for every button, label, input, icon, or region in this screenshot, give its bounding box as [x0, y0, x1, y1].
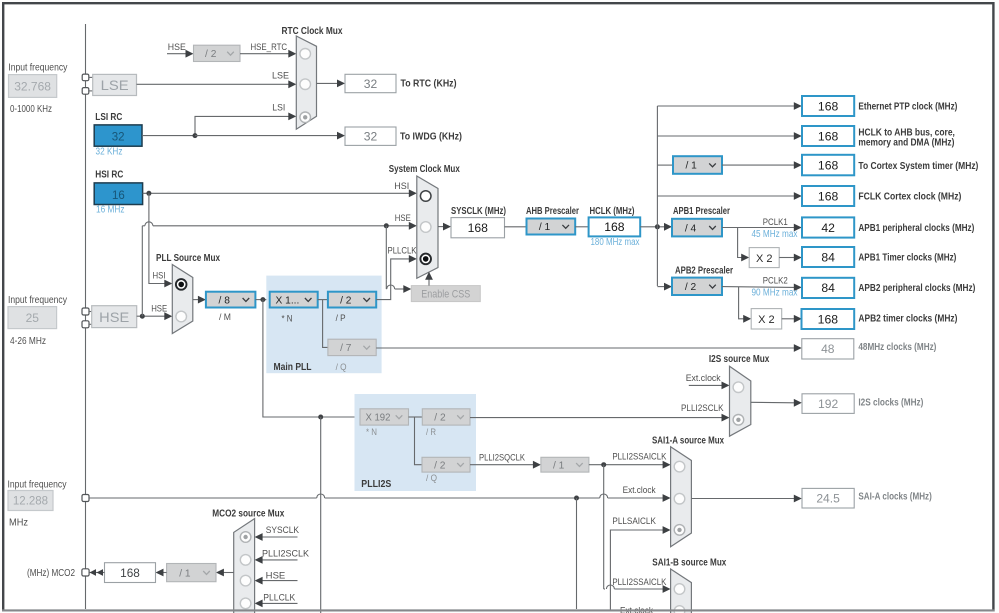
svg-text:Input frequency: Input frequency	[8, 63, 67, 74]
hop CSS wire over PLLCLK riser	[387, 285, 395, 289]
svg-text:I2S source Mux: I2S source Mux	[709, 354, 770, 365]
svg-text:16: 16	[112, 190, 125, 202]
svg-text:* N: * N	[282, 313, 293, 324]
svg-text:Ethernet PTP clock (MHz): Ethernet PTP clock (MHz)	[858, 102, 957, 113]
svg-text:Ext.clock: Ext.clock	[620, 606, 653, 613]
panel Main PLL	[266, 276, 381, 374]
svg-text:4-26 MHz: 4-26 MHz	[10, 336, 46, 347]
wire N to Q divider	[323, 300, 328, 348]
svg-text:/ 2: / 2	[434, 413, 446, 424]
wire HSE stubs	[89, 311, 92, 313]
wire AHB bus vertical	[656, 106, 658, 286]
svg-text:To RTC (KHz): To RTC (KHz)	[401, 79, 457, 90]
input box 25	[8, 307, 57, 329]
svg-text:FCLK Cortex clock (MHz): FCLK Cortex clock (MHz)	[858, 192, 961, 203]
input box 12.288	[8, 491, 53, 511]
svg-text:Ext.clock: Ext.clock	[623, 485, 656, 496]
wire MCO2 riser	[320, 417, 322, 613]
mux SAI1-B source Mux	[671, 569, 692, 613]
junction SAI feed	[601, 462, 606, 467]
svg-text:PLLCLK: PLLCLK	[263, 593, 296, 604]
port HSE pin1	[82, 308, 89, 315]
svg-text:168: 168	[468, 221, 489, 235]
mux PLL Source Mux	[172, 265, 193, 334]
mux MCO2 source Mux	[234, 519, 255, 613]
wire APB1 to X2	[738, 228, 742, 258]
svg-text:I2S clocks (MHz): I2S clocks (MHz)	[858, 398, 923, 409]
svg-text:PLLI2SSAICLK: PLLI2SSAICLK	[612, 452, 667, 463]
value FCLK 168	[802, 186, 854, 206]
svg-text:HSI: HSI	[394, 181, 409, 192]
svg-text:To IWDG (KHz): To IWDG (KHz)	[400, 132, 462, 143]
svg-text:PLLI2SQCLK: PLLI2SQCLK	[479, 452, 526, 463]
svg-text:HSE: HSE	[168, 42, 186, 53]
wire HSI down to PLL mux	[149, 193, 165, 283]
divider APB1 /4	[672, 219, 722, 237]
svg-text:/ R: / R	[426, 427, 436, 438]
port I2S CKIN pin	[82, 495, 89, 502]
wire MCO2 value to pin	[89, 572, 104, 574]
svg-text:X 1...: X 1...	[276, 295, 300, 306]
divider AHB /1	[527, 219, 576, 235]
wire LSE to mux	[137, 83, 290, 85]
wire bus to APB2	[657, 286, 665, 288]
junction LSI	[193, 133, 198, 138]
svg-text:/ 1: / 1	[179, 568, 191, 579]
svg-text:32.768: 32.768	[14, 80, 51, 94]
wire HSE to MCO2	[262, 580, 298, 582]
wire APB1 to PCLK1	[722, 227, 795, 229]
svg-text:PLLSAICLK: PLLSAICLK	[612, 516, 656, 527]
junction HSE to CSS	[384, 223, 389, 228]
svg-text:PLL Source Mux: PLL Source Mux	[156, 253, 220, 264]
svg-text:168: 168	[120, 566, 140, 580]
svg-text:32: 32	[112, 132, 125, 144]
svg-text:168: 168	[818, 312, 839, 326]
wire X2 to APB2 timer	[782, 318, 795, 320]
value APB2 peripheral 84	[802, 278, 854, 298]
svg-text:42: 42	[821, 221, 835, 235]
divider HSE RTC /2	[194, 45, 241, 61]
wire I2S mux output	[751, 401, 795, 404]
svg-text:memory and DMA (MHz): memory and DMA (MHz)	[858, 138, 954, 149]
wire SAI1-B feed riser	[603, 465, 605, 589]
port HSE pin2	[82, 321, 89, 328]
divider PLL /P /2	[328, 292, 376, 308]
svg-text:APB1 Prescaler: APB1 Prescaler	[673, 206, 730, 217]
wire PLLSAICLK riser	[610, 530, 663, 610]
svg-text:Enable CSS: Enable CSS	[421, 289, 470, 301]
svg-text:/ 8: / 8	[219, 295, 231, 306]
svg-text:12.288: 12.288	[13, 496, 48, 508]
svg-text:PLLI2SSAICLK: PLLI2SSAICLK	[612, 577, 667, 588]
svg-text:SYSCLK (MHz): SYSCLK (MHz)	[451, 206, 506, 217]
wire APB2 to X2	[739, 287, 744, 319]
svg-text:PLLI2SCLK: PLLI2SCLK	[262, 549, 310, 560]
svg-text:RTC Clock Mux: RTC Clock Mux	[282, 26, 343, 37]
wire MCO2 mux to /1	[223, 572, 234, 574]
wire HSE to PLL mux	[137, 315, 165, 317]
wire HCLK to bus	[640, 226, 666, 228]
wire LSI to IWDG	[195, 135, 338, 137]
wire PLL mux output	[193, 299, 199, 301]
svg-text:180 MHz max: 180 MHz max	[591, 237, 640, 248]
port LSE pin2	[82, 88, 89, 95]
oscillator HSE	[92, 306, 137, 328]
svg-text:(MHz) MCO2: (MHz) MCO2	[27, 568, 75, 579]
wire APB2 to PCLK2	[722, 286, 795, 289]
wire PLL N feed to PLLI2S	[263, 300, 360, 417]
svg-text:HSE: HSE	[395, 213, 411, 224]
svg-text:168: 168	[604, 220, 625, 234]
svg-text:32 KHz: 32 KHz	[96, 147, 123, 158]
hop ext over MCO2 riser	[317, 494, 325, 498]
oscillator HSI RC	[94, 183, 142, 205]
hop ext over SAI1B riser	[600, 494, 608, 498]
svg-text:/ 2: / 2	[340, 295, 352, 306]
value Ethernet 168	[802, 96, 854, 116]
svg-text:16 MHz: 16 MHz	[96, 204, 125, 215]
wire HSE riser to system mux	[141, 226, 143, 316]
svg-text:/ Q: / Q	[426, 473, 437, 484]
svg-text:PLLCLK: PLLCLK	[388, 246, 418, 257]
svg-text:Input frequency: Input frequency	[8, 295, 67, 306]
svg-text:90 MHz max: 90 MHz max	[752, 288, 798, 299]
junction PLL input split	[260, 297, 265, 302]
oscillator LSE	[93, 74, 137, 95]
svg-text:PCLK1: PCLK1	[763, 217, 788, 228]
wire /1 to SAI1-A mux	[589, 464, 663, 466]
svg-text:MCO2 source Mux: MCO2 source Mux	[212, 509, 284, 520]
wire to FCLK	[657, 195, 794, 197]
wire Q to SAI divider	[470, 464, 534, 466]
wire X2 to APB1 timer	[779, 257, 794, 259]
svg-text:48: 48	[821, 342, 835, 356]
svg-text:Ext.clock: Ext.clock	[686, 373, 721, 384]
svg-text:/ Q: / Q	[336, 362, 347, 373]
svg-text:HSE: HSE	[99, 310, 129, 325]
value MCO2 168	[105, 563, 156, 583]
frame border bottom	[2, 609, 995, 611]
junction HSE	[140, 314, 145, 319]
value 48MHz 48	[802, 339, 854, 359]
svg-text:PCLK2: PCLK2	[763, 276, 788, 287]
svg-text:HSE: HSE	[266, 571, 286, 582]
multiplier PLL *N X1...	[270, 292, 318, 308]
wire X192 to R	[409, 416, 423, 418]
multiplier X2 APB1	[749, 248, 779, 268]
oscillator LSI RC	[94, 125, 142, 146]
wire I2S CKIN ext clock line	[89, 497, 317, 499]
svg-text:To Cortex System timer (MHz): To Cortex System timer (MHz)	[858, 161, 978, 172]
value I2S 192	[802, 394, 854, 414]
svg-text:/ 2: / 2	[685, 282, 697, 293]
svg-text:/ 1: / 1	[539, 222, 551, 233]
wire 48MHz from PLL Q	[376, 347, 794, 349]
svg-text:48MHz clocks (MHz): 48MHz clocks (MHz)	[858, 342, 936, 353]
wire HSE to RTC prescaler	[167, 53, 187, 55]
hop SAI1-B wire over PLLSAICLK riser	[606, 585, 614, 589]
svg-text:25: 25	[26, 311, 40, 325]
value SAI-A 24.5	[802, 488, 854, 508]
svg-text:0-1000 KHz: 0-1000 KHz	[10, 104, 52, 115]
divider PLLI2SQ /1	[541, 457, 589, 472]
svg-text:HSI RC: HSI RC	[95, 170, 123, 181]
svg-text:Input frequency: Input frequency	[8, 480, 67, 491]
svg-text:APB2 Prescaler: APB2 Prescaler	[675, 266, 733, 277]
wire to HCLK AHB	[657, 135, 794, 137]
mux I2S source Mux	[730, 366, 751, 436]
mux RTC Clock Mux	[296, 36, 316, 129]
svg-text:168: 168	[818, 129, 839, 143]
svg-text:SAI1-A source Mux: SAI1-A source Mux	[652, 436, 724, 447]
junction ext to SAI1-B	[574, 496, 579, 501]
value HCLK 168	[589, 217, 641, 236]
svg-text:HSE: HSE	[151, 303, 167, 314]
wire LSE stubs	[89, 76, 93, 78]
divider PLL /M /8	[206, 292, 256, 308]
svg-text:X 2: X 2	[756, 253, 773, 265]
output To RTC 32	[345, 74, 396, 92]
divider Cortex /1	[673, 156, 722, 174]
wire PLLI2SCLK to I2S mux	[470, 417, 722, 419]
mux SAI1-A source Mux	[671, 447, 692, 547]
divider MCO2 /1	[167, 564, 216, 582]
wire LSI to mux	[142, 135, 195, 137]
svg-text:/ M: / M	[219, 312, 231, 323]
wire HSE_RTC to mux	[240, 53, 289, 55]
svg-text:32: 32	[364, 130, 378, 144]
svg-text:168: 168	[818, 158, 839, 172]
svg-text:X 192: X 192	[365, 413, 390, 424]
value Cortex timer 168	[802, 155, 854, 176]
svg-text:24.5: 24.5	[816, 492, 840, 506]
multiplier PLLI2S *N X192	[360, 409, 409, 425]
svg-text:/ 1: / 1	[553, 460, 565, 471]
svg-text:APB1 peripheral clocks (MHz): APB1 peripheral clocks (MHz)	[858, 223, 974, 234]
wire SYSCLK to AHB prescaler	[505, 226, 527, 228]
svg-text:* N: * N	[366, 427, 377, 438]
wire X192 to Q divider	[415, 417, 423, 465]
wire Cortex prescaler to timer box	[722, 164, 795, 166]
value SYSCLK 168	[451, 218, 505, 238]
svg-text:LSI RC: LSI RC	[95, 112, 122, 123]
divider PLL /Q /7	[328, 339, 376, 355]
wire HSI to system mux	[143, 192, 410, 194]
value APB1 peripheral 42	[802, 217, 854, 237]
wire /1 to MCO2 value	[163, 572, 167, 574]
svg-text:84: 84	[821, 250, 835, 264]
port MCO2 pin	[82, 569, 89, 576]
wire N to P	[318, 299, 328, 301]
svg-text:AHB Prescaler: AHB Prescaler	[526, 206, 579, 217]
panel PLLI2S	[355, 394, 477, 491]
svg-text:APB1 Timer clocks (MHz): APB1 Timer clocks (MHz)	[858, 253, 956, 264]
svg-text:/ P: / P	[336, 313, 346, 324]
svg-text:System Clock Mux: System Clock Mux	[389, 164, 460, 175]
svg-text:/ 4: / 4	[685, 223, 697, 234]
value APB1 timer 84	[802, 247, 854, 267]
svg-text:/ 1: / 1	[685, 161, 697, 172]
wire ext drop to SAI1-B	[576, 498, 578, 609]
value HCLK AHB 168	[802, 126, 854, 146]
wire PLLI2SCLK to MCO2	[262, 559, 298, 561]
svg-text:/ 7: / 7	[340, 343, 352, 354]
svg-text:MHz: MHz	[9, 518, 28, 529]
wire SYSCLK out	[438, 226, 444, 228]
svg-text:SAI1-B source Mux: SAI1-B source Mux	[652, 558, 726, 569]
wire left pin bus	[85, 24, 87, 609]
wire HSE down to Enable CSS	[385, 226, 387, 289]
wire to Cortex prescaler	[657, 164, 673, 166]
divider PLLI2S /R /2	[422, 409, 470, 425]
wire PLLCLK to MCO2	[262, 602, 298, 604]
junction PLLI2S feed to MCO2 riser	[318, 415, 323, 420]
svg-text:45 MHz max: 45 MHz max	[752, 229, 798, 240]
svg-text:X 2: X 2	[758, 314, 775, 326]
svg-text:/ 2: / 2	[434, 460, 446, 471]
svg-text:SYSCLK: SYSCLK	[266, 525, 300, 536]
junction HCLK bus	[655, 224, 660, 229]
svg-text:HCLK (MHz): HCLK (MHz)	[590, 206, 635, 217]
svg-text:192: 192	[818, 397, 838, 411]
junction HSI	[146, 191, 151, 196]
svg-text:APB2 peripheral clocks (MHz): APB2 peripheral clocks (MHz)	[858, 283, 975, 294]
wire SYSCLK to MCO2	[262, 536, 298, 538]
output To IWDG 32	[345, 127, 396, 145]
wire /M to N	[255, 299, 269, 301]
wire ext clock to I2S mux	[689, 384, 722, 386]
input box 32.768	[9, 75, 57, 98]
button Enable CSS	[411, 286, 480, 302]
port LSE pin1	[82, 74, 89, 81]
svg-text:32: 32	[364, 77, 378, 91]
wire SAI1-A output	[691, 498, 794, 500]
svg-text:168: 168	[818, 99, 839, 113]
svg-text:HSE_RTC: HSE_RTC	[251, 42, 288, 53]
arrow MCO2 double	[90, 569, 97, 576]
svg-text:/ 2: / 2	[205, 49, 217, 60]
wire RTC mux output	[317, 82, 339, 84]
svg-text:LSE: LSE	[272, 70, 289, 81]
wire Enable CSS to mux	[428, 279, 430, 286]
svg-text:LSI: LSI	[272, 103, 285, 114]
wire to Ethernet PTP	[657, 105, 794, 107]
svg-text:APB2 timer clocks (MHz): APB2 timer clocks (MHz)	[858, 314, 957, 325]
svg-text:LSE: LSE	[101, 78, 129, 93]
divider APB2 /2	[672, 278, 722, 295]
value APB2 timer 168	[802, 309, 855, 329]
svg-text:HSI: HSI	[153, 270, 166, 281]
wire PLLCLK riser to system mux	[376, 259, 409, 300]
svg-text:SAI-A clocks (MHz): SAI-A clocks (MHz)	[858, 491, 931, 502]
multiplier X2 APB2	[751, 309, 782, 329]
wire AHB to HCLK	[575, 226, 588, 228]
svg-text:84: 84	[821, 281, 835, 295]
svg-text:Main PLL: Main PLL	[274, 362, 312, 373]
hop HSE over HSI riser	[145, 222, 153, 226]
svg-text:PLLI2SCLK: PLLI2SCLK	[681, 403, 724, 414]
svg-text:168: 168	[818, 189, 839, 203]
mux System Clock Mux	[417, 176, 438, 278]
svg-text:PLLI2S: PLLI2S	[361, 479, 391, 490]
divider PLLI2S /Q /2	[422, 457, 470, 472]
